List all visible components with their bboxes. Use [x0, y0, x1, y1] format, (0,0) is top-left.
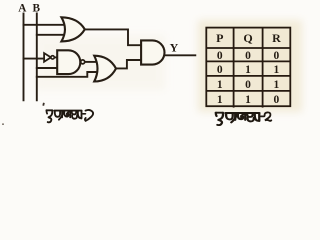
wire: NAND G3 bubble to OR gate G4 top input — [85, 61, 97, 63]
letter ka left loop — [64, 111, 68, 116]
wire: input A vertical rail — [23, 14, 25, 101]
wire: A to NOT gate G2 input — [24, 58, 45, 60]
nand-gate G3 body — [57, 50, 80, 74]
ya-phala diagonal — [59, 111, 64, 120]
svg-text:R: R — [272, 31, 281, 45]
wire: B to AND gate G3 bottom input — [37, 67, 57, 69]
letter da headline — [46, 109, 52, 111]
svg-text:0: 0 — [245, 79, 251, 91]
numeral two (Bengali) of caption-2 — [265, 112, 272, 120]
table column line 1 — [233, 28, 235, 108]
scan speck near caption-1 — [42, 103, 44, 106]
headline over sha-ka-la — [54, 110, 81, 112]
wire: OR gate G4 output to AND gate G5 bottom input — [116, 60, 141, 68]
background wash — [0, 0, 309, 130]
conjunct pa stem — [81, 111, 83, 118]
table row line 2 — [206, 60, 290, 62]
wire: A to OR gate G1 top input — [24, 24, 65, 26]
letter sha right stem — [61, 111, 63, 117]
wire: NOT gate G2 output to AND gate G3 top input — [54, 56, 57, 58]
and-gate G5 (output Y) — [141, 40, 164, 64]
svg-text:1: 1 — [217, 94, 223, 106]
letter da body — [46, 110, 49, 113]
wire: AND gate G5 output Y — [164, 54, 195, 56]
wire: B to OR gate G4 bottom input — [37, 72, 96, 77]
svg-text:0: 0 — [274, 50, 280, 62]
svg-text:0: 0 — [245, 50, 251, 62]
wire: B to OR gate G1 bottom input — [37, 34, 65, 36]
hyphen — [83, 113, 86, 115]
caption scenario-2 text (reuse of caption-1 glyphs, slightly wider) — [216, 113, 264, 125]
table row line 3 — [206, 75, 290, 77]
scan speck bottom-left corner — [2, 123, 4, 125]
numeral one (Bengali) of caption-1 — [85, 110, 93, 121]
table column line 2 — [262, 28, 264, 108]
svg-text:0: 0 — [217, 50, 223, 62]
svg-text:1: 1 — [245, 94, 251, 106]
svg-text:0: 0 — [217, 64, 223, 76]
svg-text:1: 1 — [274, 79, 280, 91]
letter ka right stem — [69, 111, 71, 117]
conjunct pa bowl — [78, 111, 82, 118]
nand-gate G3 output bubble — [81, 60, 85, 64]
wire: input B vertical rail — [36, 14, 38, 101]
letter sha bowl — [55, 111, 60, 117]
caption scenario-1 text "drishyokolpo-" (Bengali drawn as paths) — [46, 110, 85, 122]
truth table (scenario 2) — [206, 28, 290, 108]
svg-text:Y: Y — [170, 40, 179, 54]
or-gate G1 (inputs A,B) — [61, 17, 84, 41]
wire: OR gate G1 output to AND gate G5 top input — [85, 29, 141, 45]
conjunct la-pa upper bowl — [72, 111, 76, 114]
svg-text:0: 0 — [274, 94, 280, 106]
table row line 4 — [206, 90, 290, 92]
vowel sign u hook — [48, 118, 52, 123]
table row line under header — [206, 47, 290, 49]
svg-text:1: 1 — [217, 79, 223, 91]
not-gate G2 bubble — [51, 56, 54, 59]
svg-text:Q: Q — [243, 31, 252, 45]
svg-text:P: P — [216, 31, 223, 45]
or-gate G4 — [94, 56, 116, 82]
not-gate G2 (input A) — [44, 53, 51, 62]
conjunct la-pa lower bowl — [72, 115, 77, 119]
svg-text:1: 1 — [274, 64, 280, 76]
letter ka diagonal — [67, 111, 70, 116]
svg-text:1: 1 — [245, 64, 251, 76]
